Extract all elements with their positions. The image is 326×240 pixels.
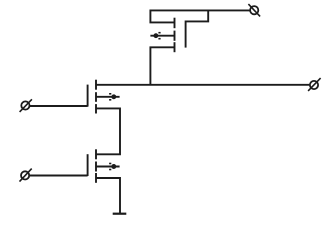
Q3 body contact bar [95,162,97,172]
Q3 drain contact bar [95,149,97,159]
port P1 (top right terminal) [248,4,260,16]
Q1 top contact bar [174,18,176,29]
Q3 gate plate [87,154,89,176]
port P4 (left bottom terminal) [20,169,32,182]
Q2 source contact bar [95,104,97,113]
Q2 body contact bar [95,92,97,102]
Q1 bottom contact bar [174,42,176,52]
Q2 body pin with arrow [96,96,120,98]
wire Q1 gate jog up to top rail [186,10,209,21]
wire Q2 gate to port P3 [30,105,88,107]
wire Q2 source down and into Q3 drain (C bracket) [96,108,120,154]
Q3 source contact bar [95,173,97,183]
transistor Q2 (middle 4-terminal MOSFET) [88,80,120,114]
Q3 body pin with arrow [96,166,120,168]
transistor Q3 (bottom 4-terminal MOSFET) [88,149,120,183]
ground [113,213,127,215]
port P2 (right terminal) [308,78,321,91]
wire Q3 gate to port P4 [30,175,88,177]
Q2 gate plate [87,85,89,107]
wire output rail to port P2 [96,84,309,86]
port P3 (left middle terminal) [20,99,32,112]
wire Q3 source down to ground [96,178,120,214]
Q1 gate plate [185,21,187,48]
Q1 body contact bar [174,31,176,41]
Q2 drain contact bar [95,80,97,90]
wire Q1 top pin up and along top rail to port P1 [150,10,250,22]
wire Q1 bottom pin down to output rail [150,47,174,85]
Q1 body pin with arrow [150,35,174,37]
transistor Q1 (top, diode-connected 4-terminal MOSFET, rotated 180) [150,18,185,53]
